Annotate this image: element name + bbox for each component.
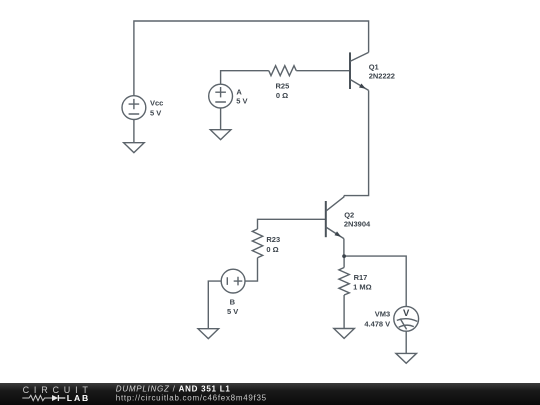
wire node to R17 top <box>343 256 345 267</box>
wire R25 right to Q1 base <box>296 70 349 72</box>
wire R23 bottom to B source <box>245 258 257 281</box>
wire A bottom to ground <box>220 108 222 130</box>
svg-text:4.478 V: 4.478 V <box>364 319 390 328</box>
svg-text:1 MΩ: 1 MΩ <box>353 282 372 291</box>
ground below Vcc <box>124 143 145 153</box>
transistor Q2 2N3904 <box>326 196 371 239</box>
wire Vcc bottom to ground <box>133 120 135 143</box>
svg-text:LAB: LAB <box>67 393 90 403</box>
svg-text:R17: R17 <box>354 273 368 282</box>
ground below B <box>198 329 219 339</box>
transistor Q1 2N2222 <box>350 52 395 90</box>
wire A top to R25 left <box>221 71 269 85</box>
footer bar <box>0 383 540 405</box>
ground below VM3 <box>396 353 417 363</box>
node junction dot <box>342 254 346 258</box>
ground below A <box>210 130 231 140</box>
wire R23 top to Q2 base <box>258 219 326 229</box>
logo resistor-diode schematic <box>22 395 52 400</box>
wire Vcc top to Q1 collector <box>134 21 369 96</box>
svg-text:R23: R23 <box>266 235 280 244</box>
wire R17 bottom to ground <box>343 295 345 329</box>
svg-text:5 V: 5 V <box>150 109 161 118</box>
svg-text:2N3904: 2N3904 <box>344 220 371 229</box>
svg-text:Q2: Q2 <box>344 211 354 220</box>
resistor R25 <box>269 66 297 100</box>
svg-text:0 Ω: 0 Ω <box>266 245 278 254</box>
svg-text:5 V: 5 V <box>227 307 238 316</box>
svg-text:A: A <box>236 87 242 96</box>
wire Q1 emitter down to Q2 collector <box>344 90 369 195</box>
svg-text:0 Ω: 0 Ω <box>276 91 288 100</box>
wire B source to ground <box>208 281 221 329</box>
wire VM3 bottom to ground <box>405 331 407 353</box>
ground below R17 <box>334 329 355 339</box>
wire node to VM3 top <box>344 256 406 306</box>
wire Q2 emitter to node <box>343 239 345 257</box>
resistor R17 <box>339 268 372 296</box>
resistor R23 <box>252 229 280 258</box>
svg-text:DUMPLINGZ / AND 351 L1: DUMPLINGZ / AND 351 L1 <box>116 385 231 394</box>
svg-text:B: B <box>230 298 236 307</box>
voltage source A <box>209 84 248 108</box>
svg-text:2N2222: 2N2222 <box>369 71 395 80</box>
svg-text:http://circuitlab.com/c46fex8m: http://circuitlab.com/c46fex8m49f35 <box>116 394 267 403</box>
svg-text:V: V <box>403 308 410 319</box>
voltage source B <box>221 269 245 316</box>
voltage source Vcc <box>122 96 163 120</box>
svg-text:Vcc: Vcc <box>150 99 163 108</box>
svg-text:5 V: 5 V <box>236 97 247 106</box>
voltmeter VM3 <box>364 306 418 331</box>
svg-text:VM3: VM3 <box>375 310 390 319</box>
svg-text:R25: R25 <box>276 82 290 91</box>
